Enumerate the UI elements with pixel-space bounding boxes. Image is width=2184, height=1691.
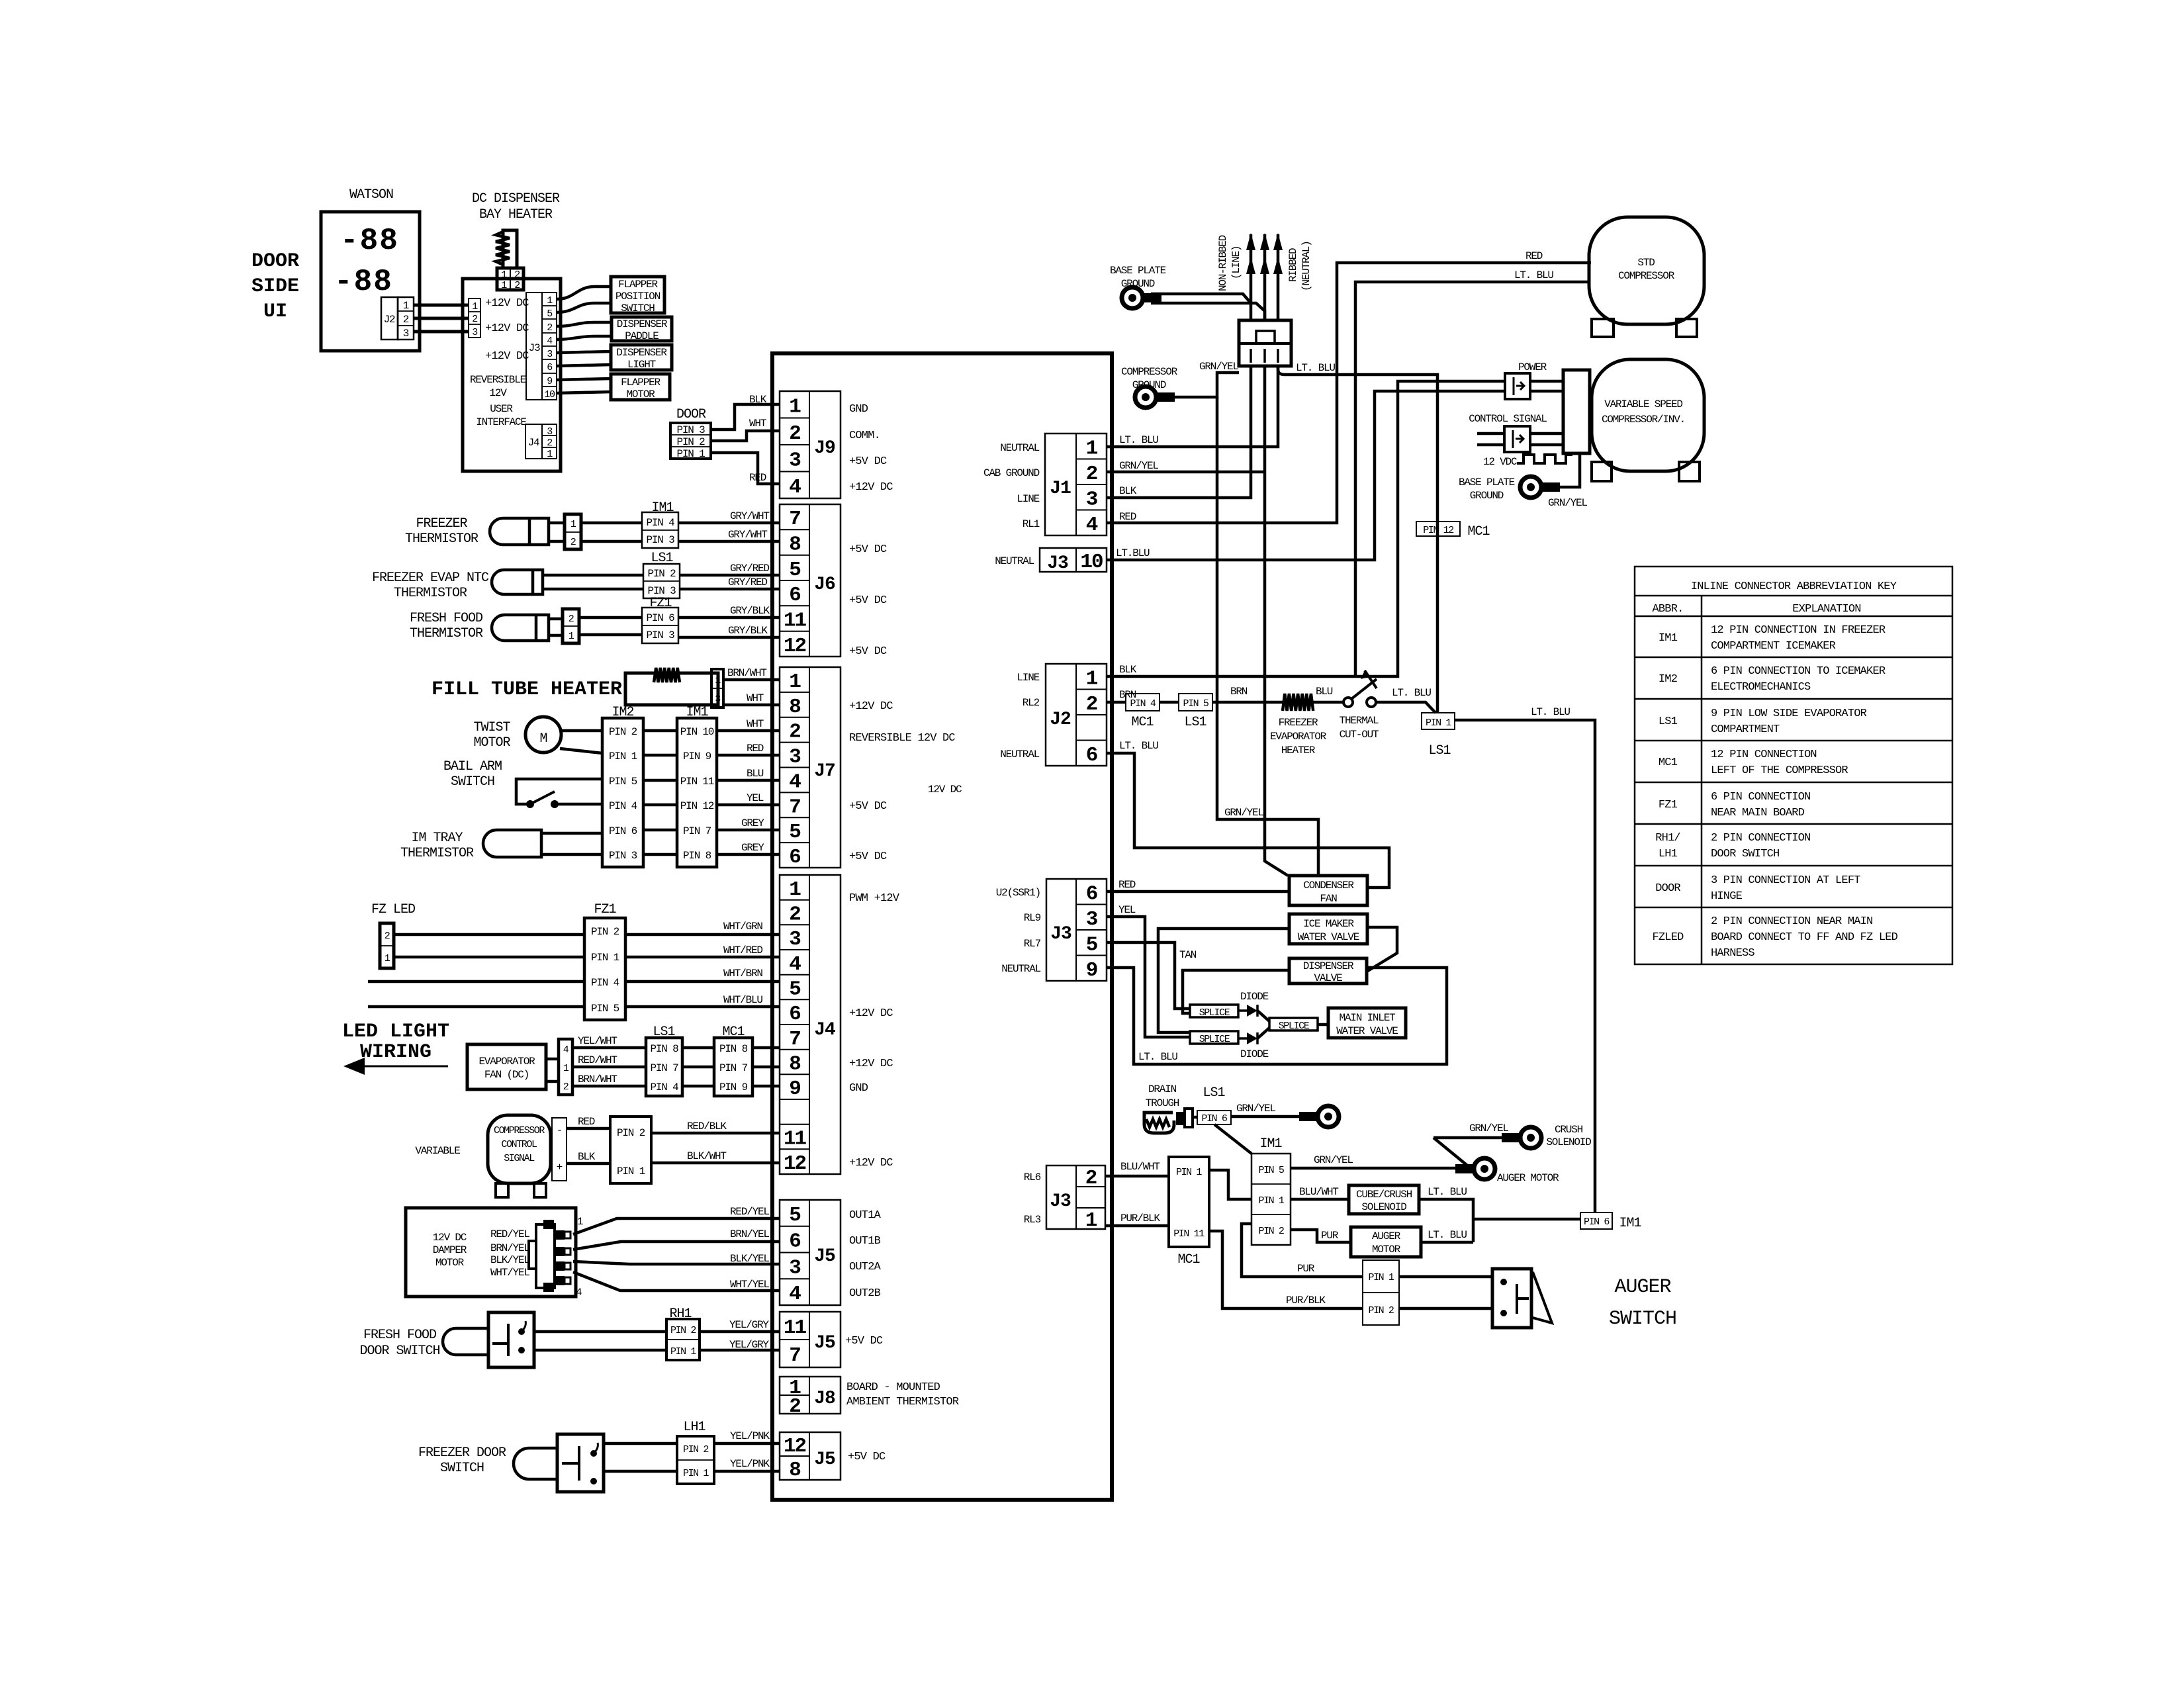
svg-text:J5: J5 — [814, 1333, 835, 1353]
wire BLK/YEL to J5.3 — [573, 1261, 780, 1264]
svg-text:PUR/BLK: PUR/BLK — [1120, 1212, 1160, 1224]
svg-text:CONTROL SIGNAL: CONTROL SIGNAL — [1469, 413, 1547, 425]
svg-text:LINE: LINE — [1017, 493, 1039, 505]
svg-text:ELECTROMECHANICS: ELECTROMECHANICS — [1711, 681, 1811, 694]
svg-text:WHT/YEL: WHT/YEL — [490, 1267, 529, 1279]
connector J4 UI label cell — [525, 424, 542, 459]
svg-text:2: 2 — [1086, 693, 1097, 716]
svg-text:WHT/BLU: WHT/BLU — [723, 994, 762, 1006]
wire PUR/BLK J3.1 to MC1 — [1105, 1224, 1169, 1228]
auger motor ground ring — [1455, 1158, 1495, 1179]
svg-text:TWIST: TWIST — [473, 720, 510, 735]
wire BLK bus to J1.3 — [1107, 366, 1251, 498]
wire to FZ1 pin5 — [368, 1005, 584, 1009]
table row MC1 — [1659, 749, 1848, 777]
svg-text:4: 4 — [576, 1287, 582, 1299]
table row IM1 — [1659, 624, 1886, 653]
svg-text:DC DISPENSER: DC DISPENSER — [472, 191, 560, 206]
svg-text:2 PIN CONNECTION NEAR MAIN: 2 PIN CONNECTION NEAR MAIN — [1711, 915, 1872, 928]
svg-text:PIN 11: PIN 11 — [680, 776, 714, 788]
svg-text:COMM.: COMM. — [849, 430, 880, 442]
svg-text:RED: RED — [1525, 250, 1543, 262]
svg-text:RED: RED — [578, 1116, 595, 1128]
wire power to inverter 2 — [1530, 390, 1563, 393]
svg-text:+5V DC: +5V DC — [849, 645, 887, 658]
svg-text:3: 3 — [789, 746, 801, 769]
control signal connector — [1504, 426, 1530, 452]
svg-text:12 PIN CONNECTION IN FREEZER: 12 PIN CONNECTION IN FREEZER — [1711, 624, 1886, 637]
svg-text:-: - — [557, 1124, 562, 1136]
wire GRN/YEL diagonal to crush — [1433, 1138, 1471, 1168]
wire control to inverter 2 — [1530, 443, 1563, 447]
wire YEL/GRY to J5.7 — [700, 1349, 780, 1352]
svg-text:WHT/BRN: WHT/BRN — [723, 968, 762, 980]
svg-text:PIN 7: PIN 7 — [683, 825, 711, 837]
wire MC1.7 to J4.8 — [752, 1066, 780, 1069]
svg-text:MC1: MC1 — [1659, 756, 1678, 769]
bay heater coil — [496, 232, 510, 265]
svg-text:SWITCH: SWITCH — [621, 302, 655, 314]
svg-text:OUT1A: OUT1A — [849, 1209, 882, 1222]
svg-text:PIN 2: PIN 2 — [609, 726, 637, 738]
svg-text:GRY/BLK: GRY/BLK — [728, 625, 768, 637]
inline connector abbreviation key table — [1635, 567, 1952, 964]
wire power to inverter 1 — [1530, 380, 1563, 383]
connector fresh food thermistor 2-1 — [563, 609, 579, 643]
svg-text:SOLENOID: SOLENOID — [1361, 1201, 1406, 1213]
connector J3 mid — [1046, 879, 1107, 982]
flapper motor box — [611, 374, 670, 400]
wire base plate ground 1 — [1151, 294, 1251, 303]
svg-text:INLINE CONNECTOR ABBREVIATION: INLINE CONNECTOR ABBREVIATION KEY — [1691, 580, 1897, 593]
svg-text:2: 2 — [789, 903, 800, 927]
connector J4 — [780, 875, 841, 1175]
wire PUR IM1.2 to auger motor — [1291, 1230, 1351, 1242]
wire BLK J2.1 to power — [1107, 381, 1505, 676]
svg-text:FREEZER: FREEZER — [416, 516, 467, 531]
freezer thermistor bulb — [490, 518, 549, 545]
wire J3.6 to dispenser light — [557, 365, 611, 366]
svg-text:FREEZER DOOR: FREEZER DOOR — [418, 1445, 506, 1461]
svg-text:HEATER: HEATER — [1281, 745, 1316, 756]
wire RED/WHT to LS1 pin7 — [572, 1066, 646, 1069]
svg-text:GRY/RED: GRY/RED — [728, 576, 767, 588]
wire control to inverter 1 — [1530, 432, 1563, 435]
svg-text:LT. BLU: LT. BLU — [1514, 269, 1553, 281]
svg-text:PIN 3: PIN 3 — [646, 629, 674, 641]
wire freezer thermistor 2 — [549, 540, 565, 543]
connector J3 UI cells — [542, 293, 557, 400]
svg-text:12: 12 — [784, 1435, 806, 1458]
svg-text:MC1: MC1 — [1177, 1252, 1200, 1267]
wire LT.BLU neutral to STD compressor — [1355, 282, 1590, 676]
svg-text:AUGER: AUGER — [1372, 1230, 1401, 1242]
svg-text:HARNESS: HARNESS — [1711, 947, 1754, 960]
wire ff door switch to RH1 pin2 — [534, 1330, 666, 1334]
wire J2.2 to PIN4 — [1107, 701, 1126, 704]
wire to LS1 pin2 — [543, 574, 643, 577]
svg-text:PIN 1: PIN 1 — [1176, 1167, 1202, 1178]
wire GRY/RED to J6.5 — [680, 574, 780, 577]
svg-text:REVERSIBLE: REVERSIBLE — [470, 374, 526, 386]
twist motor circle — [525, 717, 561, 753]
svg-text:12 PIN CONNECTION: 12 PIN CONNECTION — [1711, 749, 1817, 761]
connector J6 — [780, 504, 841, 658]
svg-text:YEL/WHT: YEL/WHT — [578, 1035, 617, 1047]
label DOOR SIDE UI — [251, 250, 299, 323]
label BAIL ARM SWITCH — [443, 759, 502, 790]
svg-text:DIODE: DIODE — [1240, 1048, 1269, 1060]
connector MC1 pins 8-7-9 — [714, 1038, 752, 1096]
connector FZ LED — [380, 923, 394, 968]
svg-text:GRN/YEL: GRN/YEL — [1224, 807, 1263, 819]
wire to IM2 pin6 — [541, 832, 602, 835]
connector J4 UI cells — [542, 424, 557, 460]
wire IM2-IM1 row3 — [643, 779, 677, 782]
svg-text:GRN/YEL: GRN/YEL — [1236, 1103, 1275, 1115]
connector J7 — [780, 667, 841, 869]
svg-text:12 VDC: 12 VDC — [1483, 456, 1517, 468]
svg-text:WHT: WHT — [747, 692, 764, 704]
svg-text:2 PIN CONNECTION: 2 PIN CONNECTION — [1711, 832, 1810, 845]
svg-text:SOLENOID: SOLENOID — [1546, 1136, 1591, 1148]
drain trough ground ring — [1299, 1106, 1339, 1127]
svg-text:CRUSH: CRUSH — [1555, 1124, 1583, 1136]
svg-text:6: 6 — [789, 846, 800, 869]
svg-text:BRN/WHT: BRN/WHT — [727, 667, 766, 679]
svg-text:FILL TUBE HEATER: FILL TUBE HEATER — [432, 678, 622, 701]
svg-text:GND: GND — [849, 403, 868, 416]
svg-text:9: 9 — [1086, 959, 1097, 982]
svg-text:J3: J3 — [1047, 553, 1068, 574]
led light wiring arrow line — [363, 1066, 448, 1068]
svg-text:PIN 9: PIN 9 — [683, 751, 711, 762]
label BASE PLATE GROUND (vs) — [1459, 477, 1515, 502]
svg-text:YEL/PNK: YEL/PNK — [730, 1430, 770, 1442]
freezer evaporator heater coil — [1283, 694, 1313, 711]
svg-text:YEL/GRY: YEL/GRY — [729, 1339, 769, 1351]
svg-text:LT. BLU: LT. BLU — [1428, 1229, 1467, 1241]
svg-text:MOTOR: MOTOR — [473, 735, 510, 751]
svg-text:+5V DC: +5V DC — [849, 850, 887, 863]
connector control -/+ — [552, 1118, 567, 1181]
svg-text:BLU/WHT: BLU/WHT — [1299, 1186, 1338, 1198]
VS compressor blob — [1592, 359, 1704, 471]
svg-text:6 PIN CONNECTION: 6 PIN CONNECTION — [1711, 791, 1810, 803]
svg-text:FZ LED: FZ LED — [371, 902, 415, 917]
svg-text:1: 1 — [1086, 437, 1098, 460]
wire IM2-IM1 row6 — [643, 853, 677, 856]
svg-text:J3: J3 — [1050, 1191, 1071, 1212]
main control board outline — [772, 353, 1112, 1500]
svg-text:EXPLANATION: EXPLANATION — [1792, 603, 1860, 616]
svg-text:U2(SSR1): U2(SSR1) — [996, 887, 1040, 899]
svg-text:PIN 8: PIN 8 — [683, 850, 711, 862]
connector J3 bottom — [1046, 1165, 1105, 1232]
wire WHT door pin2 to J9.2 — [711, 431, 780, 441]
wire GREY to J7.6 — [717, 853, 780, 856]
svg-text:3: 3 — [789, 928, 801, 951]
svg-text:IM TRAY: IM TRAY — [411, 831, 463, 846]
IM tray thermistor bulb — [483, 830, 541, 857]
AC terminal block — [1239, 320, 1291, 366]
svg-text:BLK/YEL: BLK/YEL — [730, 1253, 769, 1265]
svg-text:PIN 2: PIN 2 — [670, 1325, 696, 1336]
svg-text:PIN 2: PIN 2 — [683, 1444, 708, 1455]
svg-text:NEUTRAL: NEUTRAL — [1000, 442, 1039, 454]
table row LS1 — [1659, 708, 1867, 736]
main inlet water valve box — [1328, 1008, 1406, 1038]
svg-text:SIDE: SIDE — [251, 275, 299, 298]
svg-text:1: 1 — [789, 878, 801, 901]
wire J3.2 to dispenser paddle — [557, 322, 612, 326]
svg-text:10: 10 — [544, 389, 555, 400]
connector FZ1 (led) — [584, 918, 625, 1020]
bail arm contact 2 — [551, 800, 559, 808]
svg-text:2: 2 — [472, 314, 477, 325]
svg-text:12: 12 — [784, 1152, 806, 1175]
wire BRN/WHT to LS1 pin4 — [572, 1085, 646, 1088]
svg-text:J3: J3 — [1050, 924, 1071, 944]
wire RED/BLK to J4.11 — [651, 1132, 780, 1135]
vs compressor foot 1 — [1592, 462, 1612, 481]
svg-text:MOTOR: MOTOR — [1372, 1244, 1401, 1256]
compressor ground ring — [1135, 387, 1175, 408]
svg-text:-88: -88 — [340, 224, 399, 258]
svg-text:BLK: BLK — [1119, 664, 1137, 676]
connector J8 — [780, 1377, 841, 1418]
wire RED control — [567, 1127, 610, 1130]
svg-text:PIN 5: PIN 5 — [609, 776, 637, 788]
svg-text:J8: J8 — [814, 1389, 835, 1409]
svg-text:2: 2 — [514, 280, 520, 291]
table row RH1/ — [1655, 832, 1810, 860]
svg-text:J7: J7 — [814, 761, 835, 782]
svg-text:FLAPPER: FLAPPER — [618, 279, 658, 291]
svg-text:+12V DC: +12V DC — [849, 481, 893, 494]
wire to IM2 pin3 — [541, 853, 602, 856]
svg-text:M: M — [539, 731, 547, 747]
svg-text:USER: USER — [490, 403, 513, 415]
wire LS1-MC1 row1 — [682, 1046, 714, 1050]
svg-text:2: 2 — [563, 1081, 569, 1093]
splice upper — [1190, 1005, 1238, 1019]
wire to FZ1 pin6 — [579, 616, 642, 619]
svg-text:REVERSIBLE 12V DC: REVERSIBLE 12V DC — [849, 732, 955, 745]
wire LT.BLU cutout to LS1 PIN1 — [1376, 702, 1435, 713]
wire MC1.8 to J4.7 — [752, 1046, 780, 1050]
svg-text:PWM +12V: PWM +12V — [849, 892, 900, 905]
wire GRY/WHT to J6.8 — [678, 540, 780, 543]
wire WHT to J7.8 — [723, 704, 780, 707]
svg-text:COMPRESSOR: COMPRESSOR — [1121, 366, 1178, 378]
svg-text:4: 4 — [789, 953, 801, 976]
svg-text:4: 4 — [789, 476, 801, 499]
connector control pins 2-1 — [610, 1117, 651, 1183]
svg-text:9: 9 — [789, 1077, 800, 1101]
user interface box — [463, 279, 561, 471]
svg-text:RL1: RL1 — [1023, 518, 1040, 530]
fill tube heater coil — [654, 668, 680, 682]
svg-text:11: 11 — [784, 610, 807, 633]
GRN/YEL ground bus down to condenser fan — [1217, 397, 1318, 876]
connector LS1 PIN 1 — [1422, 713, 1455, 729]
connector IM2 — [602, 718, 643, 867]
svg-text:FLAPPER: FLAPPER — [621, 377, 660, 388]
svg-text:8: 8 — [789, 1053, 800, 1076]
svg-text:UI: UI — [263, 300, 287, 323]
svg-text:GROUND: GROUND — [1470, 490, 1504, 502]
splice lower — [1190, 1031, 1238, 1045]
svg-text:PIN 6: PIN 6 — [1584, 1216, 1610, 1228]
svg-text:YEL: YEL — [1118, 904, 1136, 916]
wire ice maker valve right to dispenser valve — [1367, 927, 1397, 972]
wire LS1 PIN6 to IM1 PIN5 diagonal — [1214, 1124, 1251, 1154]
svg-text:BAIL ARM: BAIL ARM — [443, 759, 502, 774]
label THERMAL CUT-OUT — [1340, 715, 1379, 741]
svg-text:PIN 1: PIN 1 — [617, 1165, 645, 1177]
svg-text:SWITCH: SWITCH — [451, 774, 494, 790]
svg-text:FAN: FAN — [1320, 893, 1337, 905]
svg-text:THERMISTOR: THERMISTOR — [394, 586, 467, 601]
wire WHT/RED to J4.4 — [625, 956, 780, 959]
wire PIN4 to PIN5 — [1160, 701, 1179, 704]
wire fz door switch to LH1 pin2 — [604, 1442, 677, 1445]
wire GRY/RED to J6.6 — [680, 588, 780, 591]
svg-text:+5V DC: +5V DC — [845, 1335, 883, 1348]
svg-text:POWER: POWER — [1518, 361, 1547, 373]
svg-text:PIN 8: PIN 8 — [650, 1043, 678, 1055]
svg-text:FZ1: FZ1 — [649, 596, 672, 611]
wire J2.3 to UI — [414, 330, 469, 334]
svg-text:BLU: BLU — [747, 768, 764, 780]
connector J9 — [780, 391, 841, 499]
svg-text:CONDENSER: CONDENSER — [1303, 880, 1354, 891]
wire YEL J3.3 to splice — [1107, 917, 1190, 1037]
base plate ground ring (top) — [1122, 287, 1161, 308]
fresh food door switch lamp — [443, 1328, 488, 1355]
table row FZ1 — [1659, 791, 1811, 819]
svg-text:IM1: IM1 — [1619, 1216, 1641, 1231]
svg-text:BASE PLATE: BASE PLATE — [1110, 265, 1166, 277]
wire BLU/WHT J3.2 to MC1 — [1105, 1175, 1169, 1178]
svg-text:PIN 1: PIN 1 — [591, 952, 619, 964]
svg-text:4: 4 — [1086, 514, 1098, 537]
wire GRY/BLK to J6.11 — [678, 616, 780, 619]
svg-text:J1: J1 — [1050, 479, 1071, 499]
svg-text:PIN 1: PIN 1 — [1368, 1272, 1394, 1283]
vs compressor foot 2 — [1679, 462, 1700, 481]
wire ff door switch to RH1 pin1 — [534, 1349, 666, 1352]
svg-text:BOARD - MOUNTED: BOARD - MOUNTED — [846, 1381, 940, 1394]
svg-text:GND: GND — [849, 1082, 868, 1095]
svg-text:CUBE/CRUSH: CUBE/CRUSH — [1356, 1189, 1412, 1201]
wire neutral bus to condenser fan — [1265, 366, 1288, 876]
svg-text:BLK/WHT: BLK/WHT — [687, 1150, 726, 1162]
svg-text:PIN 7: PIN 7 — [719, 1062, 748, 1074]
wire bail arm bracket — [516, 779, 602, 804]
wire base plate ground to inverter — [1549, 453, 1580, 487]
label NON-RIBBED (LINE) — [1217, 235, 1242, 291]
svg-text:COMPARTMENT ICEMAKER: COMPARTMENT ICEMAKER — [1711, 640, 1836, 653]
svg-text:FZLED: FZLED — [1652, 931, 1684, 944]
wire base plate ground 2 — [1151, 303, 1265, 320]
svg-text:WIRING: WIRING — [360, 1041, 432, 1064]
svg-text:VALVE: VALVE — [1314, 972, 1342, 984]
svg-text:YEL/GRY: YEL/GRY — [729, 1319, 769, 1331]
svg-text:LT. BLU: LT. BLU — [1392, 687, 1431, 699]
label J8 board mounted ambient thermistor — [846, 1381, 959, 1408]
fill tube heater box — [625, 673, 718, 705]
wire LS1-MC1 row3 — [682, 1085, 714, 1088]
connector J3 UI label cell — [526, 293, 542, 400]
svg-text:6: 6 — [789, 1003, 800, 1026]
svg-text:AUGER MOTOR: AUGER MOTOR — [1497, 1172, 1559, 1184]
svg-text:GRY/WHT: GRY/WHT — [730, 510, 769, 522]
svg-text:2: 2 — [547, 322, 552, 334]
led light wiring arrowhead — [343, 1058, 365, 1075]
svg-text:BLK: BLK — [749, 394, 767, 406]
wire ice maker valve to splice — [1158, 929, 1289, 1032]
svg-text:RL6: RL6 — [1024, 1171, 1041, 1183]
svg-text:DISPENSER: DISPENSER — [617, 318, 668, 330]
svg-text:+5V DC: +5V DC — [849, 455, 887, 468]
wire PUR/BLK MC1.11 to auger switch pin2 — [1209, 1231, 1363, 1308]
auger motor box — [1351, 1227, 1421, 1257]
wire control stub 2 — [1477, 443, 1504, 447]
wire GRN/YEL IM1.5 — [1291, 1167, 1471, 1170]
svg-text:SWITCH: SWITCH — [1609, 1308, 1676, 1330]
svg-text:RL9: RL9 — [1024, 912, 1041, 924]
wire fz door switch to LH1 pin1 — [604, 1470, 677, 1473]
wire LT.BLU to IM1 PIN6 — [1473, 1218, 1580, 1221]
svg-text:3: 3 — [789, 1256, 801, 1279]
svg-text:PIN 1: PIN 1 — [1426, 717, 1451, 729]
svg-text:PIN 1: PIN 1 — [609, 751, 637, 762]
connector UI left 1-2-3 — [469, 298, 480, 338]
wire WHT/BRN to J4.5 — [625, 980, 780, 983]
svg-text:LIGHT: LIGHT — [627, 359, 656, 371]
svg-text:GRN/YEL: GRN/YEL — [1314, 1154, 1353, 1166]
svg-text:LT. BLU: LT. BLU — [1138, 1051, 1177, 1063]
AC line arrows — [1250, 234, 1253, 320]
svg-text:NEAR MAIN BOARD: NEAR MAIN BOARD — [1711, 807, 1805, 819]
svg-text:FZ1: FZ1 — [1659, 799, 1678, 811]
svg-text:PIN 3: PIN 3 — [646, 534, 674, 546]
connector fill tube heater 1-3 — [711, 669, 723, 708]
svg-text:+12V DC: +12V DC — [849, 1157, 893, 1169]
wire LT.BLU bus to J1.1 — [1107, 366, 1278, 447]
svg-text:DISPENSER: DISPENSER — [616, 347, 667, 359]
svg-text:PIN 7: PIN 7 — [650, 1062, 678, 1074]
wire twist motor to IM2 pin2 — [561, 729, 602, 733]
wire J3.1 to flapper position switch — [557, 287, 611, 299]
svg-text:PIN 1: PIN 1 — [683, 1468, 709, 1479]
svg-text:12: 12 — [784, 635, 806, 658]
svg-text:WATER VALVE: WATER VALVE — [1298, 931, 1359, 943]
svg-text:PIN 4: PIN 4 — [646, 517, 674, 529]
svg-text:WHT/YEL: WHT/YEL — [730, 1279, 769, 1291]
connector freezer thermistor 1-2 — [565, 514, 581, 549]
svg-text:SPLICE: SPLICE — [1279, 1021, 1310, 1032]
wire GRN/YEL trough ground — [1231, 1115, 1313, 1119]
table row IM2 — [1659, 665, 1886, 694]
wire IM2-IM1 row4 — [643, 803, 677, 807]
svg-text:RED/BLK: RED/BLK — [687, 1120, 727, 1132]
wire YEL/PNK to J5.8 — [714, 1470, 780, 1473]
svg-text:PIN 2: PIN 2 — [1368, 1305, 1393, 1316]
wire GRN/YEL to crush solenoid ring — [1433, 1136, 1516, 1140]
